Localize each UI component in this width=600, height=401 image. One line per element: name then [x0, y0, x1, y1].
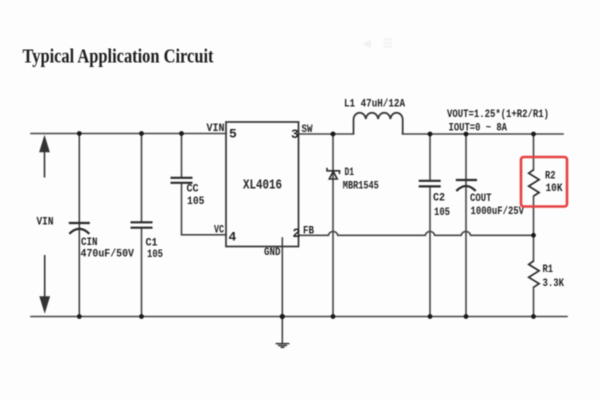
svg-text:Typical Application Circuit: Typical Application Circuit — [23, 46, 214, 68]
svg-text:3: 3 — [291, 127, 299, 142]
capacitor COUT electrolytic — [456, 180, 477, 191]
wire R2 top — [533, 134, 535, 170]
svg-text:VIN: VIN — [37, 217, 54, 229]
wire top rail left — [31, 133, 226, 135]
wire C2 top — [429, 134, 431, 180]
capacitor C1 — [131, 222, 153, 227]
svg-text:GND: GND — [264, 247, 281, 259]
svg-text:COUT: COUT — [470, 193, 492, 205]
svg-text:5: 5 — [229, 127, 237, 142]
svg-text:470uF/50V: 470uF/50V — [81, 249, 135, 261]
capacitor CIN electrolytic — [69, 223, 90, 234]
svg-text:XL4016: XL4016 — [243, 178, 282, 194]
svg-text:L1 47uH/12A: L1 47uH/12A — [344, 99, 405, 111]
svg-text:VIN: VIN — [207, 123, 225, 135]
svg-text:VC: VC — [214, 225, 224, 237]
wire SW to L1 — [299, 133, 354, 135]
wire C1 top — [141, 134, 143, 223]
wire R2 to FB junction — [533, 197, 535, 262]
wire C1 bottom — [141, 228, 143, 317]
svg-text:SW: SW — [302, 124, 313, 136]
wire COUT vertical — [465, 134, 467, 317]
svg-text:VOUT=1.25*(1+R2/R1): VOUT=1.25*(1+R2/R1) — [447, 109, 549, 121]
svg-text:IOUT=0 ~ 8A: IOUT=0 ~ 8A — [449, 123, 508, 135]
wire FB horizontal with hops — [299, 231, 534, 235]
wire CC top — [181, 134, 183, 178]
svg-text:CC: CC — [187, 184, 199, 196]
red highlight box around R2 — [521, 157, 567, 207]
inductor L1 — [354, 113, 403, 134]
svg-text:CIN: CIN — [81, 237, 98, 249]
svg-text:R1: R1 — [543, 264, 554, 276]
wire IC GND stub down to ground — [281, 238, 283, 343]
capacitor C2 — [419, 181, 441, 187]
svg-text:R2: R2 — [545, 171, 556, 183]
svg-text:FB: FB — [303, 226, 314, 238]
svg-text:10K: 10K — [546, 183, 563, 195]
faint watermark remnants (decorative) — [362, 39, 392, 49]
wire R1 bottom — [533, 288, 535, 317]
svg-text:C1: C1 — [146, 238, 158, 250]
svg-text:105: 105 — [147, 249, 163, 261]
diode D1 MBR1545 schottky — [327, 168, 340, 179]
wire CC bottom to VC — [182, 183, 227, 235]
resistor R1 — [529, 261, 539, 287]
op-amp U1 XL4016 IC box — [226, 122, 299, 247]
svg-text:105: 105 — [434, 207, 450, 219]
svg-text:MBR1545: MBR1545 — [343, 181, 379, 193]
capacitor CC — [171, 178, 193, 183]
node VIN input arrows — [40, 138, 49, 312]
resistor R2 — [529, 170, 539, 196]
svg-text:2: 2 — [293, 226, 301, 241]
wire C2 bottom — [429, 187, 431, 317]
svg-text:1000uF/25V: 1000uF/25V — [471, 206, 525, 218]
wire D1 vertical — [332, 134, 334, 317]
node junction dots — [77, 131, 536, 319]
svg-text:4: 4 — [229, 230, 237, 245]
wire CIN vertical — [78, 134, 80, 317]
wire L1 to output end — [403, 133, 564, 135]
svg-text:C2: C2 — [433, 193, 445, 205]
svg-text:D1: D1 — [345, 167, 355, 179]
ground — [276, 344, 290, 348]
svg-text:105: 105 — [187, 196, 205, 208]
svg-text:3.3K: 3.3K — [543, 278, 565, 290]
wire bottom rail — [31, 316, 567, 318]
